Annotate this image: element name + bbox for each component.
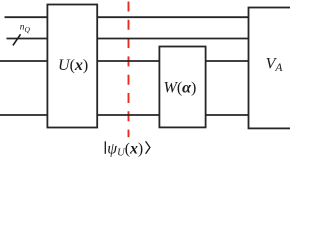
measurement/observable V_A box (clipped at right edge) <box>249 8 299 129</box>
wire q2 right segment <box>97 38 248 40</box>
svg-text:U(x): U(x) <box>58 57 88 74</box>
wire q1 right segment <box>97 16 248 18</box>
wire q1 left segment <box>5 16 48 18</box>
svg-text:W(α): W(α) <box>164 80 197 97</box>
state label |psi_U(x)> : bar <box>104 141 106 154</box>
wire q3 left segment <box>0 60 47 62</box>
wire q3 middle segment <box>97 60 159 62</box>
wire q2 left segment <box>7 38 48 40</box>
state label rangle <box>146 141 150 154</box>
gate W(alpha) box <box>159 47 205 128</box>
wire q4 right segment <box>206 114 249 116</box>
red dashed barrier line <box>128 2 130 138</box>
wire q3 right segment <box>206 60 249 62</box>
svg-text:nQ: nQ <box>20 23 31 34</box>
wire q4 left segment <box>0 114 47 116</box>
bus slash on wire q2 <box>13 34 21 45</box>
gate U(x) box <box>47 5 97 128</box>
wire q4 middle segment <box>97 114 159 116</box>
svg-text:ψU(x): ψU(x) <box>107 140 143 158</box>
